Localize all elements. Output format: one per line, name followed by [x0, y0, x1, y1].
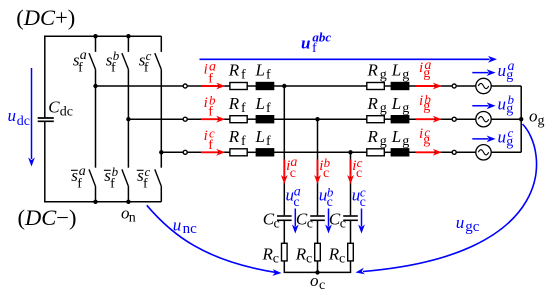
wire R_f to L_f (phase c) — [247, 151, 256, 153]
switch sbar_f^a lower stub wire — [95, 186, 97, 202]
svg-text:nc: nc — [183, 221, 198, 237]
current arrow i_g^b — [416, 91, 442, 122]
switch sbar_f^b label — [104, 164, 119, 191]
current arrow i_g^c — [416, 125, 442, 156]
capacitor Cdc — [38, 98, 73, 122]
resistor R_g (phase c) — [367, 127, 387, 156]
resistor R_c (phase b) — [295, 243, 321, 266]
phase c tap junction node — [159, 150, 163, 154]
phase b open terminal — [183, 117, 187, 121]
node o_n label — [121, 204, 136, 226]
switch s_f^b upper stub wire — [127, 36, 129, 52]
inductor L_f (phase c) — [255, 127, 274, 156]
switch sbar_f^c lower stub wire — [160, 186, 162, 202]
svg-text:c: c — [293, 195, 299, 210]
wire L_g to grid terminal (phase b) — [409, 118, 452, 120]
svg-text:i: i — [204, 128, 208, 144]
switch sbar_f^b lower stub wire — [127, 186, 129, 202]
svg-text:C: C — [48, 98, 60, 117]
resistor R_f (phase a) — [228, 61, 247, 90]
svg-text:f: f — [78, 60, 83, 75]
svg-text:g: g — [402, 134, 409, 149]
svg-text:g: g — [506, 135, 513, 150]
inductor L_f (phase b) — [255, 94, 274, 123]
wire R_g to L_g (phase a) — [384, 85, 391, 87]
svg-text:g: g — [380, 101, 387, 116]
svg-text:u: u — [8, 106, 17, 125]
svg-text:f: f — [143, 177, 148, 192]
wire source to grid rail (phase b) — [491, 118, 521, 120]
svg-text:n: n — [129, 211, 136, 226]
inductor L_g (phase a) — [391, 61, 410, 90]
svg-text:R: R — [262, 245, 274, 264]
svg-text:R: R — [228, 94, 240, 113]
wire R_g to L_g (phase c) — [384, 151, 391, 153]
DC bus left rail wire (below Cdc) — [44, 121, 46, 202]
svg-text:g: g — [506, 68, 513, 83]
svg-text:i: i — [204, 95, 208, 111]
svg-text:L: L — [391, 127, 401, 146]
wire R_c to star point rail (phase b) — [317, 261, 319, 273]
node o_g — [519, 107, 545, 129]
voltage arrow u_c^b — [319, 185, 334, 234]
svg-text:f: f — [266, 68, 271, 83]
voltage arrow u_g^b — [472, 92, 514, 116]
wire L_g to grid terminal (phase a) — [409, 85, 452, 87]
svg-text:g: g — [402, 68, 409, 83]
svg-text:i: i — [204, 62, 208, 78]
DC bus left rail wire (above Cdc) — [44, 36, 46, 119]
switch sbar_f^c label — [137, 164, 151, 191]
inductor L_g (phase b) — [391, 94, 410, 123]
svg-text:u: u — [173, 216, 182, 235]
current arrow i_f^b — [201, 93, 225, 123]
svg-text:g: g — [423, 66, 430, 81]
svg-text:c: c — [290, 166, 296, 181]
resistor R_g (phase b) — [367, 94, 387, 123]
wire terminal to source (phase b) — [457, 118, 476, 120]
svg-text:o: o — [529, 107, 538, 126]
phase c wire from leg to R_f — [161, 151, 230, 153]
switch sbar_f^a label — [71, 164, 86, 191]
wire terminal to source (phase c) — [457, 151, 476, 153]
svg-text:g: g — [380, 68, 387, 83]
svg-text:c: c — [319, 278, 325, 293]
svg-text:u: u — [456, 213, 465, 232]
star point rail wire — [284, 271, 352, 273]
node o_c — [310, 270, 325, 293]
current arrow i_c^b — [314, 155, 331, 184]
capacitor C_c (phase c) — [329, 209, 358, 231]
svg-text:u: u — [498, 94, 507, 113]
voltage arrow u_dc — [8, 68, 35, 167]
svg-text:g: g — [506, 101, 513, 116]
wire capacitor to R_c (phase b) — [317, 220, 319, 243]
DC bus top rail wire — [44, 35, 161, 37]
leg a middle wire — [95, 69, 97, 167]
svg-text:f: f — [208, 138, 213, 153]
svg-text:(DC−): (DC−) — [18, 205, 77, 230]
shunt branch a wire down to capacitor — [283, 86, 285, 215]
svg-text:(DC+): (DC+) — [16, 5, 75, 30]
switch s_f^a upper stub wire — [95, 36, 97, 52]
switch s_f^c blade — [155, 53, 162, 69]
switch s_f^a blade — [89, 53, 96, 69]
voltage arc u_gc — [356, 124, 537, 274]
svg-text:R: R — [228, 61, 240, 80]
wire R_c to star point rail (phase a) — [283, 261, 285, 273]
svg-text:R: R — [367, 94, 379, 113]
label (DC+) — [16, 5, 75, 30]
grid voltage source u_g^a — [476, 78, 491, 93]
wire L_f to R_g (phase c) — [274, 151, 367, 153]
svg-text:f: f — [312, 41, 317, 56]
phase a tap junction node — [93, 84, 97, 88]
wire capacitor to R_c (phase c) — [350, 220, 352, 243]
svg-text:c: c — [360, 195, 366, 210]
svg-text:f: f — [241, 101, 246, 116]
inductor L_f (phase a) — [255, 61, 274, 90]
svg-text:f: f — [241, 68, 246, 83]
wire R_c to star point rail (phase c) — [350, 261, 352, 273]
svg-text:L: L — [255, 94, 265, 113]
wire terminal to source (phase a) — [457, 85, 476, 87]
current arrow i_c^c — [347, 155, 363, 184]
voltage arrow u_g^c — [472, 125, 513, 149]
voltage arrow u_c^c — [352, 185, 366, 234]
svg-text:c: c — [356, 166, 362, 181]
voltage arrow u_g^a — [472, 59, 514, 83]
current arrow i_f^c — [201, 126, 225, 156]
svg-text:dc: dc — [17, 114, 30, 129]
inductor L_g (phase c) — [391, 127, 410, 156]
svg-text:c: c — [306, 252, 312, 267]
svg-text:c: c — [307, 217, 313, 232]
wire R_g to L_g (phase b) — [384, 118, 391, 120]
svg-text:R: R — [228, 127, 240, 146]
top rail junction node (leg b) — [126, 34, 130, 38]
grid open terminal (phase b) — [452, 117, 456, 121]
switch sbar_f^c blade — [155, 169, 162, 186]
svg-text:L: L — [391, 94, 401, 113]
svg-text:c: c — [340, 217, 346, 232]
svg-text:f: f — [208, 105, 213, 120]
grid voltage source u_g^c — [476, 145, 491, 160]
phase b wire from leg to R_f — [128, 118, 230, 120]
capacitor C_c (phase a) — [263, 209, 292, 231]
capacitor C_c (phase b) — [296, 209, 325, 231]
wire R_f to L_f (phase b) — [247, 118, 256, 120]
svg-text:o: o — [310, 271, 319, 290]
svg-text:f: f — [77, 177, 82, 192]
svg-text:f: f — [241, 134, 246, 149]
leg b middle wire — [127, 69, 129, 167]
svg-text:dc: dc — [60, 105, 73, 120]
grid open terminal (phase c) — [452, 150, 456, 154]
label (DC-) — [18, 205, 77, 230]
svg-text:f: f — [208, 72, 213, 87]
phase a wire from leg to R_f — [96, 85, 231, 87]
svg-text:R: R — [328, 245, 340, 264]
svg-text:g: g — [380, 134, 387, 149]
svg-text:R: R — [367, 127, 379, 146]
svg-text:f: f — [144, 60, 149, 75]
switch s_f^b label — [106, 48, 120, 75]
svg-text:f: f — [111, 60, 116, 75]
switch sbar_f^b blade — [122, 169, 128, 186]
switch s_f^c label — [139, 48, 152, 75]
switch s_f^c upper stub wire — [160, 36, 162, 52]
grid voltage source u_g^b — [476, 112, 491, 127]
svg-text:R: R — [295, 245, 307, 264]
bottom rail junction node (leg a) — [93, 200, 97, 204]
svg-text:f: f — [266, 134, 271, 149]
svg-text:L: L — [255, 61, 265, 80]
voltage arrow u_c^a — [286, 185, 301, 234]
svg-text:g: g — [423, 99, 430, 114]
svg-text:g: g — [423, 132, 430, 147]
svg-text:L: L — [255, 127, 265, 146]
svg-text:c: c — [323, 166, 329, 181]
shunt tap junction node (phase c) — [348, 150, 352, 154]
phase c open terminal — [183, 150, 187, 154]
bottom rail junction node (leg b) — [126, 200, 130, 204]
svg-text:c: c — [339, 252, 345, 267]
svg-text:g: g — [538, 114, 545, 129]
shunt branch b wire down to capacitor — [317, 119, 319, 215]
voltage arc u_nc — [147, 205, 282, 276]
shunt branch c wire down to capacitor — [350, 152, 352, 215]
svg-text:c: c — [327, 195, 333, 210]
phase a open terminal — [183, 84, 187, 88]
svg-text:f: f — [110, 177, 115, 192]
resistor R_g (phase a) — [367, 61, 387, 90]
shunt tap junction node (phase b) — [315, 117, 319, 121]
shunt tap junction node (phase a) — [282, 84, 286, 88]
current arrow i_g^a — [416, 58, 442, 89]
wire L_g to grid terminal (phase c) — [409, 151, 452, 153]
current arrow i_c^a — [281, 155, 298, 184]
wire R_f to L_f (phase a) — [247, 85, 256, 87]
resistor R_f (phase b) — [228, 94, 247, 123]
svg-text:u: u — [498, 61, 507, 80]
DC bus bottom rail wire — [44, 201, 161, 203]
switch sbar_f^a blade — [89, 169, 96, 186]
grid neutral rail wire — [520, 86, 522, 152]
svg-text:u: u — [498, 127, 507, 146]
resistor R_c (phase a) — [262, 243, 288, 266]
resistor R_c (phase c) — [328, 243, 354, 266]
svg-text:u: u — [301, 33, 310, 52]
svg-text:gc: gc — [465, 219, 480, 235]
wire L_f to R_g (phase b) — [274, 118, 367, 120]
leg c middle wire — [160, 69, 162, 167]
svg-text:f: f — [266, 101, 271, 116]
voltage arrow u_f^abc — [200, 29, 498, 62]
svg-text:g: g — [402, 101, 409, 116]
switch s_f^b blade — [122, 53, 128, 69]
svg-text:c: c — [274, 217, 280, 232]
resistor R_f (phase c) — [228, 127, 247, 156]
wire capacitor to R_c (phase a) — [283, 220, 285, 243]
svg-text:R: R — [367, 61, 379, 80]
wire source to grid rail (phase a) — [491, 85, 521, 87]
wire L_f to R_g (phase a) — [274, 85, 367, 87]
top rail junction node (leg a) — [93, 34, 97, 38]
phase b tap junction node — [126, 117, 130, 121]
svg-text:L: L — [391, 61, 401, 80]
switch s_f^a label — [73, 48, 87, 75]
svg-text:c: c — [273, 252, 279, 267]
wire source to grid rail (phase c) — [491, 151, 521, 153]
grid open terminal (phase a) — [452, 84, 456, 88]
current arrow i_f^a — [201, 59, 225, 89]
